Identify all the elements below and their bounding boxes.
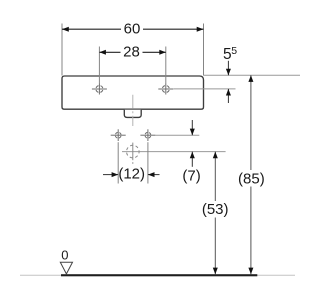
svg-text:5: 5 (231, 45, 237, 57)
svg-text:(12): (12) (118, 165, 145, 182)
svg-text:28: 28 (123, 44, 140, 61)
svg-text:(85): (85) (238, 170, 265, 187)
svg-text:(53): (53) (202, 201, 229, 218)
svg-text:0: 0 (61, 248, 68, 263)
svg-text:60: 60 (124, 20, 141, 37)
svg-text:(7): (7) (182, 168, 200, 185)
